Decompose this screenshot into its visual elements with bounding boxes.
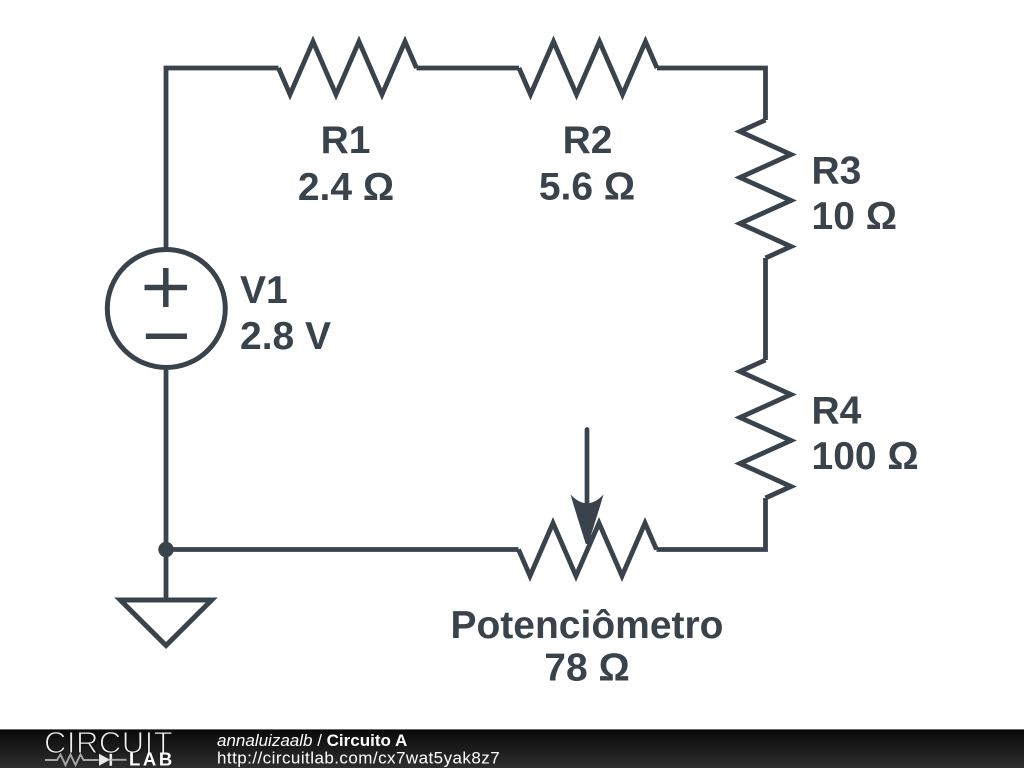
wire: R4 to bottom-right corner to potentiometer (657, 498, 766, 550)
logo diode (99, 754, 110, 766)
wire: potentiometer to node (166, 547, 519, 552)
resistor R4 (740, 360, 791, 498)
V1 minus sign (146, 334, 187, 340)
svg-text:http://circuitlab.com/cx7wat5y: http://circuitlab.com/cx7wat5yak8z7 (217, 749, 500, 768)
resistor R1 (279, 42, 417, 95)
potentiometer body (519, 523, 657, 576)
wire: V1 top to top-left corner to R1 (166, 68, 279, 250)
svg-text:2.8 V: 2.8 V (240, 315, 331, 358)
svg-text:Potenciômetro: Potenciômetro (450, 604, 723, 647)
resistor R2 (519, 42, 657, 95)
svg-text:R2: R2 (563, 119, 613, 162)
wire: R2 to top-right corner down to R3 (657, 68, 766, 120)
svg-text:10 Ω: 10 Ω (812, 195, 897, 238)
wire: V1 bottom to node to ground (164, 367, 169, 601)
svg-text:R4: R4 (812, 390, 862, 433)
svg-text:R1: R1 (321, 119, 371, 162)
ground (120, 600, 211, 646)
resistor R3 (740, 120, 791, 258)
logo schematic wire + resistor (45, 755, 99, 766)
V1 plus sign (145, 268, 188, 307)
svg-text:annaluizaalb / Circuito A: annaluizaalb / Circuito A (217, 731, 407, 750)
wire: R3 to R4 (763, 258, 768, 360)
svg-text:100 Ω: 100 Ω (812, 435, 919, 478)
wire: R1 to R2 (417, 66, 520, 71)
node junction dot (158, 542, 173, 557)
svg-text:V1: V1 (240, 269, 288, 312)
svg-text:78 Ω: 78 Ω (544, 647, 629, 690)
svg-text:5.6 Ω: 5.6 Ω (539, 166, 635, 209)
potentiometer wiper arrow (585, 430, 590, 506)
svg-text:R3: R3 (812, 150, 862, 193)
voltage source V1 (107, 250, 225, 368)
svg-text:2.4 Ω: 2.4 Ω (298, 166, 394, 209)
footer bar (0, 729, 1024, 768)
svg-text:LAB: LAB (129, 749, 175, 768)
